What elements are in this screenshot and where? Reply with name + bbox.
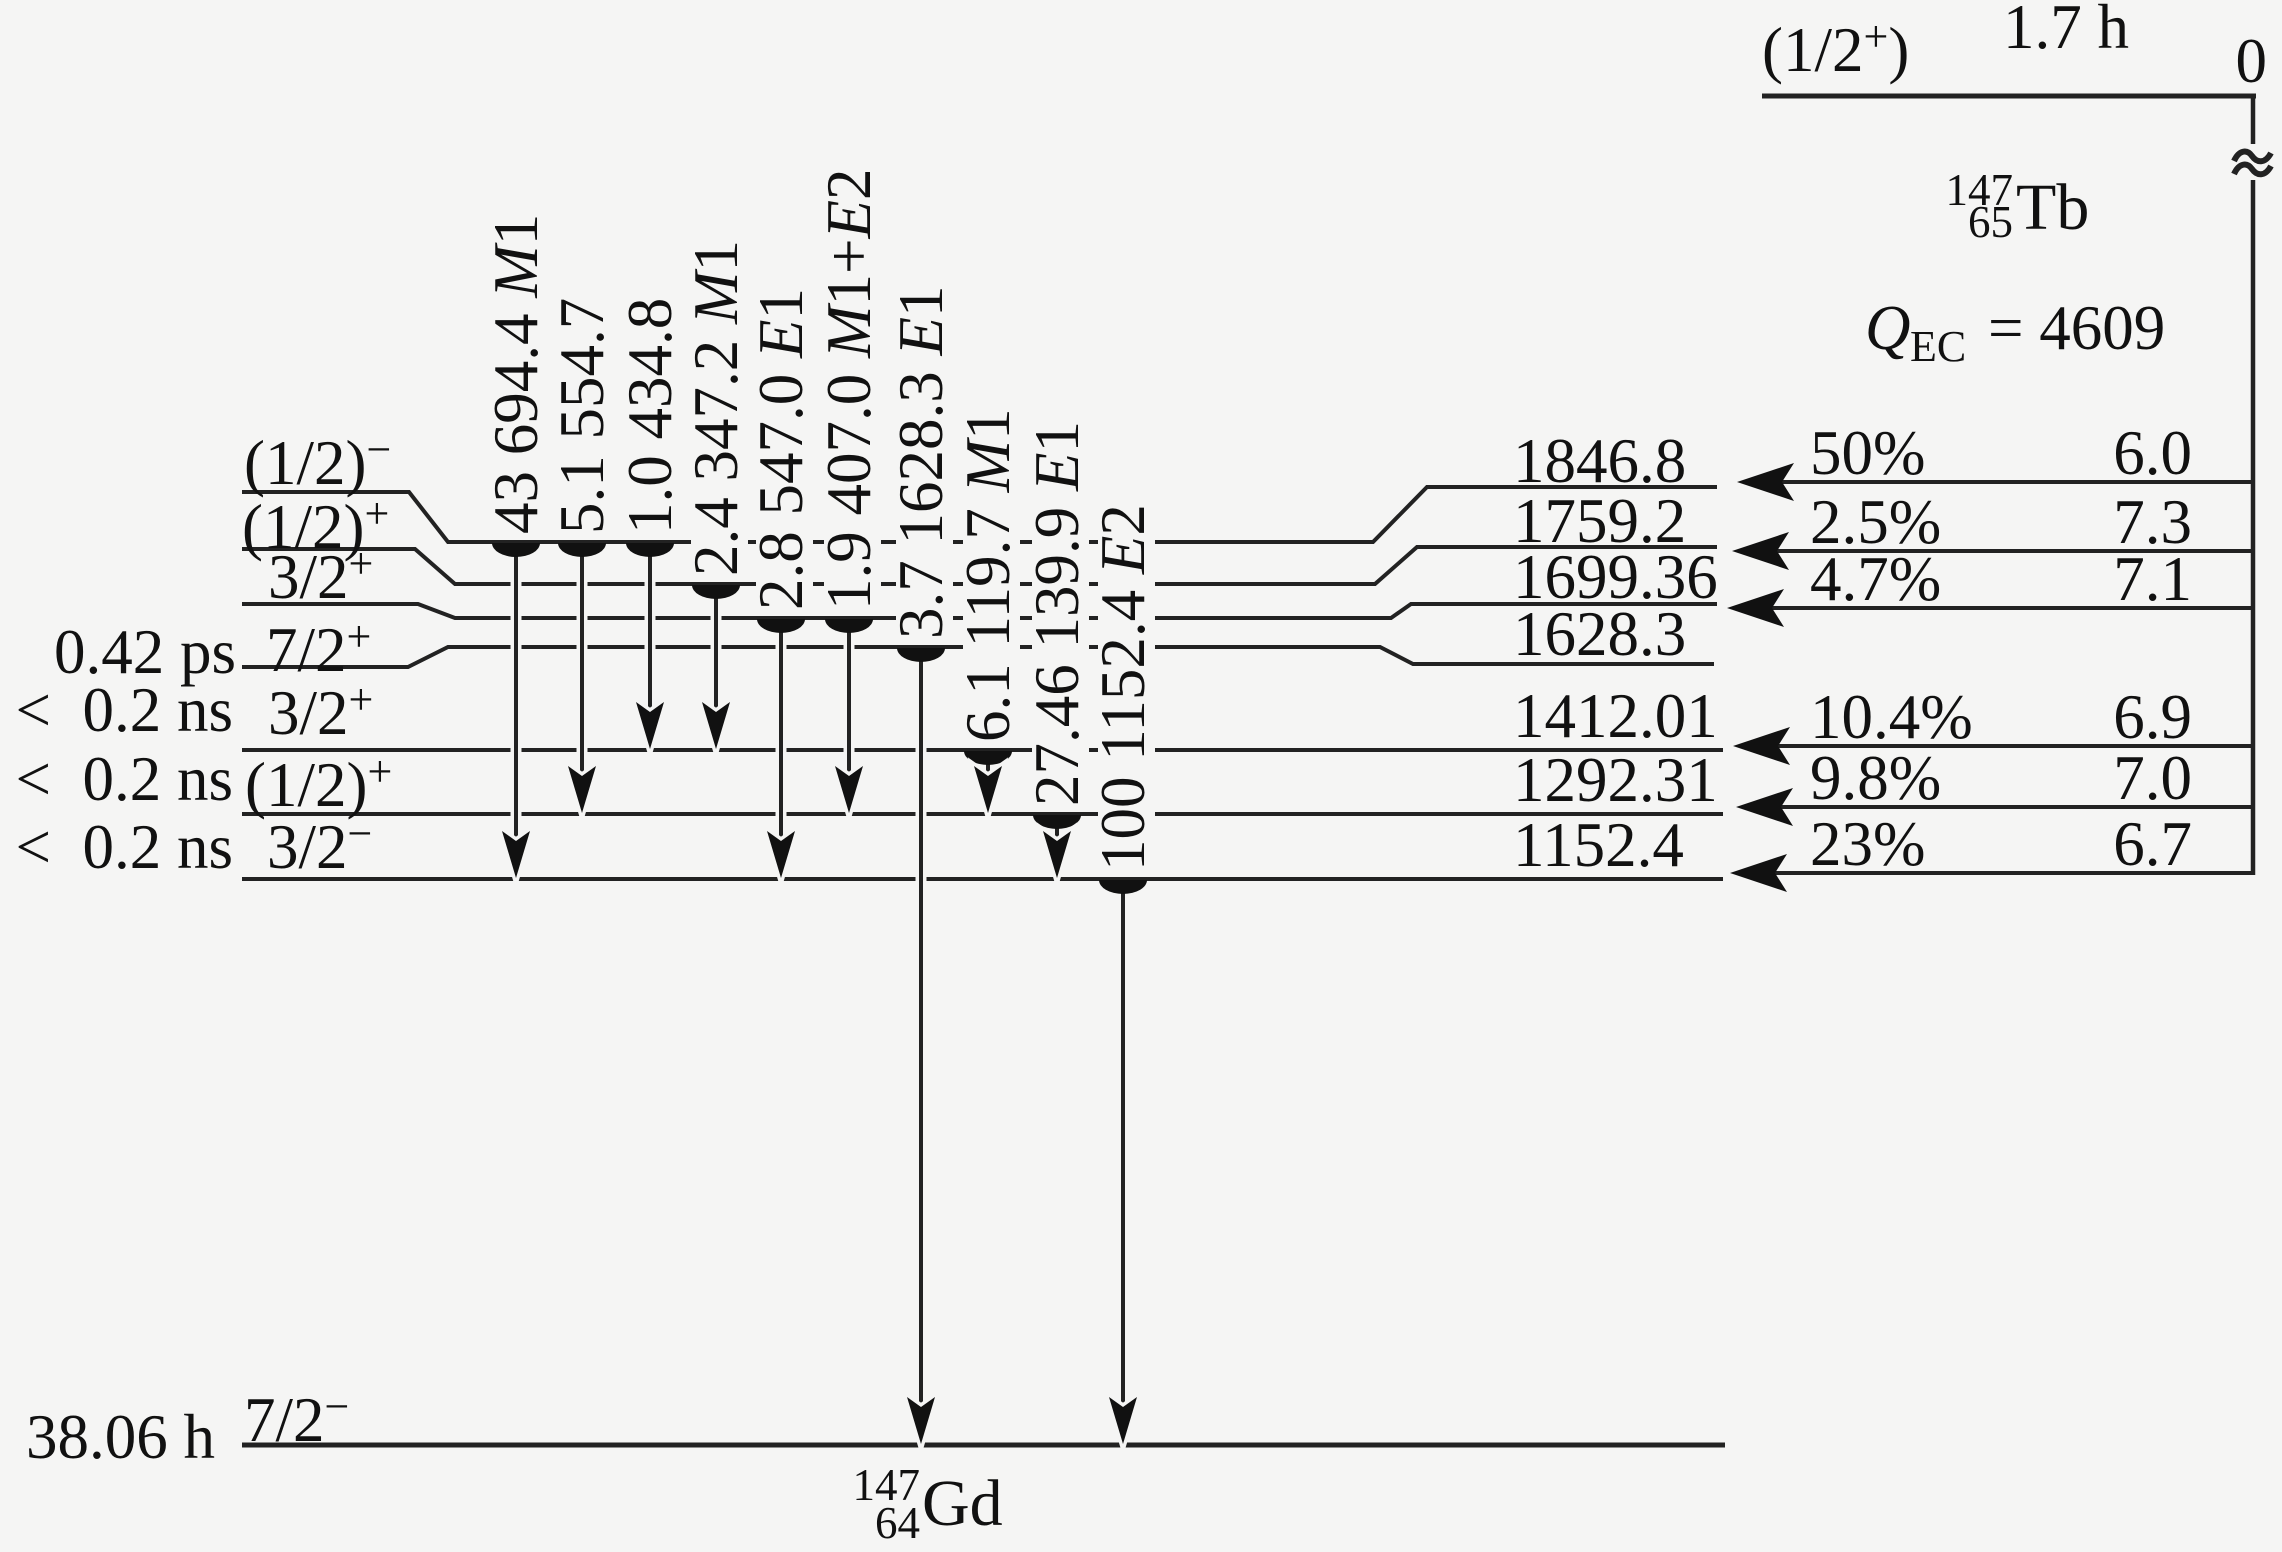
gamma label 5 [746,282,816,616]
spin-parity label for 1152.4 [267,809,372,882]
gamma arrow 3 [626,543,674,749]
spin-parity label for 1412.01 [268,675,373,748]
break symbol on decay line [2231,144,2275,180]
gamma arrow 5 [757,619,805,878]
svg-text:6.1 119.7 M1: 6.1 119.7 M1 [953,408,1023,742]
ground state level 0 keV 147Gd line [242,1443,1725,1448]
EC feeding arrow 4.7% logft 7.1 [1727,589,2253,627]
svg-text:50%: 50% [1810,418,1925,488]
log ft label 7.0 [2113,743,2192,813]
svg-text:1.0 434.8: 1.0 434.8 [615,298,685,534]
gamma label 9 [1022,410,1092,812]
svg-text:Tb: Tb [2016,171,2089,244]
Q_EC = 4609 label [1865,293,2165,371]
decay vertical line upper segment [2251,96,2256,150]
gamma arrow 10 [1099,880,1147,1444]
feeding percent label 23% [1810,809,1925,879]
gamma label 4 [681,240,751,582]
svg-text:9.8%: 9.8% [1810,743,1941,813]
svg-text:6.9: 6.9 [2113,682,2192,752]
svg-text:1.7 h: 1.7 h [2003,0,2129,62]
energy label 1846.8 [1513,426,1686,496]
svg-text:EC: EC [1910,322,1966,371]
decay vertical line lower segment [2251,174,2256,875]
svg-text:64: 64 [875,1498,920,1548]
gamma label 1 [481,208,551,540]
svg-text:43 694.4 M1: 43 694.4 M1 [481,214,551,534]
gamma arrow 6 [825,619,873,813]
nuclide label 147/65 Tb [1946,165,2090,247]
energy label 1152.4 [1513,810,1684,880]
nuclide label 147/64 Gd [853,1460,1003,1548]
gamma arrow 2 [558,543,606,813]
level 1292.31 [242,812,1723,816]
EC feeding arrow 23% logft 6.7 [1730,854,2253,892]
feeding percent label 2.5% [1810,487,1941,557]
svg-text:27.46 139.9 E1: 27.46 139.9 E1 [1022,421,1092,806]
gamma arrow 8 [964,751,1012,813]
svg-text:6.7: 6.7 [2113,809,2192,879]
half-life label 38.06 h [26,1402,215,1472]
parent spin label (1/2+) [1762,12,1909,85]
feeding percent label 9.8% [1810,743,1941,813]
gamma label 10 [1088,493,1158,877]
gamma label 7 [886,281,956,645]
svg-text:< 0.2 ns: < 0.2 ns [15,744,233,814]
svg-text:= 4609: = 4609 [1988,293,2165,363]
gamma arrow 7 [897,648,945,1444]
feeding percent label 50% [1810,418,1925,488]
energy label 1699.36 [1513,542,1718,612]
svg-text:< 0.2 ns: < 0.2 ns [15,675,233,745]
svg-text:Q: Q [1865,293,1911,363]
EC feeding arrow 9.8% logft 7.0 [1736,788,2253,826]
svg-text:7.1: 7.1 [2113,544,2192,614]
energy label 1292.31 [1513,745,1718,815]
svg-text:10.4%: 10.4% [1810,682,1973,752]
log ft label 6.7 [2113,809,2192,879]
svg-text:100 1152.4 E2: 100 1152.4 E2 [1088,504,1158,871]
svg-text:7.0: 7.0 [2113,743,2192,813]
spin-parity label for 1699.36 [268,539,373,612]
svg-text:38.06 h: 38.06 h [26,1402,215,1472]
gamma label 8 [953,408,1023,748]
feeding percent label 4.7% [1810,544,1941,614]
energy label 1628.3 [1513,599,1686,669]
parent energy 0 [2236,26,2268,96]
level 1628.3 [242,647,1714,667]
log ft label 6.9 [2113,682,2192,752]
feeding percent label 10.4% [1810,682,1973,752]
svg-text:1292.31: 1292.31 [1513,745,1718,815]
level 1412.01 [242,748,1723,752]
svg-text:1.9 407.0 M1+E2: 1.9 407.0 M1+E2 [814,169,884,611]
gamma line white halos [516,548,1123,1407]
half-life label 0.42 ps [54,617,236,687]
log ft label 7.1 [2113,544,2192,614]
gamma label 3 [615,296,685,540]
parent level 147Tb 0 keV line [1762,94,2256,99]
svg-text:Gd: Gd [922,1467,1003,1540]
svg-text:2.4 347.2 M1: 2.4 347.2 M1 [681,240,751,576]
level 1699.36 [242,604,1717,618]
svg-text:6.0: 6.0 [2113,418,2192,488]
gamma arrow 9 [1033,815,1081,878]
svg-text:65: 65 [1968,197,2013,247]
svg-text:0: 0 [2236,26,2268,96]
spin-parity label for 1846.8 [244,425,391,498]
svg-text:1628.3: 1628.3 [1513,599,1686,669]
half-life label < 0.2 ns [15,744,233,814]
spin-parity label for 1628.3 [266,612,371,685]
energy label 1412.01 [1513,681,1718,751]
parent half-life 1.7 h [2003,0,2129,62]
svg-text:1412.01: 1412.01 [1513,681,1718,751]
EC feeding arrow 2.5% logft 7.3 [1732,532,2253,570]
log ft label 7.3 [2113,487,2192,557]
svg-text:1152.4: 1152.4 [1513,810,1684,880]
half-life label < 0.2 ns [15,812,233,882]
svg-text:23%: 23% [1810,809,1925,879]
spin-parity label for ground [244,1382,349,1455]
gamma arrow 1 [492,543,540,878]
half-life label < 0.2 ns [15,675,233,745]
level 1152.4 [242,877,1723,881]
log ft label 6.0 [2113,418,2192,488]
level 1846.8 [242,487,1717,542]
svg-text:2.8 547.0 E1: 2.8 547.0 E1 [746,288,816,610]
gamma label 2 [547,296,617,540]
energy label 1759.2 [1513,486,1686,556]
spin-parity label for 1292.31 [245,747,392,820]
svg-text:3.7 1628.3 E1: 3.7 1628.3 E1 [886,286,956,639]
EC feeding arrow 50% logft 6.0 [1737,463,2253,501]
gamma label 6 [814,159,884,616]
spin-parity label for 1759.2 [242,489,389,562]
gamma arrow 4 [692,585,740,749]
level 1759.2 [242,547,1717,584]
svg-text:4.7%: 4.7% [1810,544,1941,614]
svg-text:< 0.2 ns: < 0.2 ns [15,812,233,882]
EC feeding arrow 10.4% logft 6.9 [1733,727,2253,765]
svg-text:5.1 554.7: 5.1 554.7 [547,298,617,534]
